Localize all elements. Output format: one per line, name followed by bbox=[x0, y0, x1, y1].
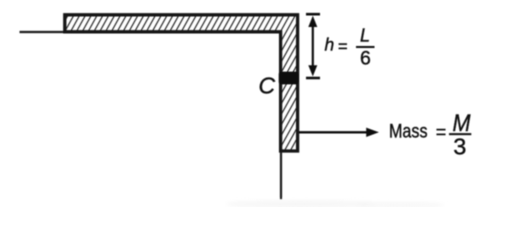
dimension arrow h: upper arrowhead bbox=[308, 16, 317, 27]
wire: thin vertical line below vertical rod bbox=[280, 152, 282, 199]
svg-text:=: = bbox=[338, 38, 348, 56]
dimension arrow h: top tick bbox=[306, 13, 320, 16]
dimension arrow h: vertical shaft bbox=[312, 21, 314, 71]
svg-text:6: 6 bbox=[360, 48, 371, 70]
svg-text:L: L bbox=[360, 26, 370, 46]
wire: thin horizontal baseline segment on the left bbox=[20, 31, 65, 33]
fraction bar (L/6) bbox=[356, 46, 375, 48]
arrow to mass label: arrowhead bbox=[366, 128, 379, 137]
svg-text:C: C bbox=[259, 73, 276, 99]
svg-text:h: h bbox=[325, 35, 335, 55]
fraction bar (M/3) bbox=[449, 133, 471, 135]
arrow to mass label: shaft bbox=[299, 131, 369, 133]
dimension arrow h: lower arrowhead bbox=[308, 65, 317, 76]
svg-text:Mass: Mass bbox=[389, 121, 428, 143]
rod L1: L-shaped hatched bar (horizontal rod + vertical rod) bbox=[65, 15, 298, 151]
svg-text:=: = bbox=[436, 122, 447, 142]
scan smudge (faint, bottom) bbox=[225, 201, 375, 208]
node C marker: filled black square on vertical rod bbox=[279, 72, 299, 85]
dimension arrow h: bottom tick bbox=[306, 77, 320, 80]
svg-text:3: 3 bbox=[453, 134, 466, 160]
